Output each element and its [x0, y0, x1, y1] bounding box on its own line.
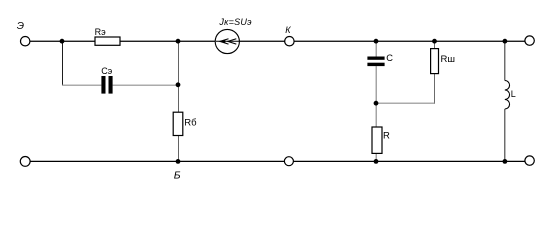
wire grey: node Э down-leg (62,41)-(62,85)	[62, 41, 64, 85]
node dot: top at x=505	[503, 39, 508, 44]
wire grey: Rш bottom lead down (434.5,73.5)-(434.5,103)	[434, 74, 436, 104]
wire grey: R top lead (376,103)-(376,127)	[375, 103, 377, 127]
label Rэ	[95, 27, 106, 37]
svg-text:C: C	[386, 53, 393, 63]
svg-text:Rэ: Rэ	[95, 27, 106, 37]
terminal Э (top-left)	[21, 37, 30, 46]
wire grey: Rш top lead (434.5,41)-(434.5,48.5)	[434, 41, 436, 48]
label Э	[17, 20, 24, 32]
wire grey: vertical node Б leg (178,41)-(178,112)	[178, 41, 180, 112]
node dot: top at x=178	[176, 39, 181, 44]
svg-text:Rб: Rб	[184, 117, 197, 128]
label Rб	[184, 117, 197, 128]
svg-text:L: L	[511, 89, 516, 99]
resistor R	[372, 127, 382, 153]
node dot: Б junction (178,161.4)	[176, 159, 181, 164]
label Jк=SUэ	[218, 17, 252, 27]
terminal right-bottom	[525, 156, 534, 165]
inductor L	[505, 81, 510, 110]
node dot: bottom at x=505	[503, 159, 508, 164]
wire grey: C top lead (376,41)-(376,56.5)	[375, 41, 377, 56]
resistor Rэ	[95, 37, 120, 45]
node dot: Cэ-Rб junction (178,85)	[176, 82, 181, 87]
svg-text:К: К	[285, 25, 291, 35]
svg-text:Jк=SUэ: Jк=SUэ	[218, 17, 252, 27]
wire bottom main (terminal to right)	[30, 160, 525, 162]
wire top main (terminal Э to terminal К to right terminal)	[30, 40, 525, 42]
label Б	[174, 169, 181, 181]
node dot: Э junction (62,41)	[60, 39, 65, 44]
terminal bottom-left	[20, 157, 30, 167]
svg-text:Cэ: Cэ	[101, 66, 112, 76]
label L	[511, 89, 516, 99]
node dot: bottom at x=376	[374, 159, 379, 164]
svg-text:Э: Э	[17, 20, 24, 32]
label R	[383, 130, 390, 141]
wire grey: C bottom lead to node (376,66)-(376,103)	[375, 66, 377, 103]
node dot: C-R-Rш junction (376,103)	[374, 101, 379, 106]
terminal bottom-middle	[284, 157, 293, 166]
label К	[285, 25, 291, 35]
svg-text:Rш: Rш	[441, 54, 455, 65]
label Cэ	[101, 66, 112, 76]
wire grey: R bottom lead (376,153.4)-(376,161.4)	[375, 153, 377, 161]
capacitor Cэ	[101, 76, 112, 94]
capacitor C	[367, 57, 384, 67]
wire grey: Cэ branch right (112.6,85)-(178,85)	[113, 84, 179, 86]
wire grey: Rб bottom lead (178,135.5)-(178,161.4)	[178, 136, 180, 162]
resistor Rш	[431, 49, 439, 74]
terminal right-top	[525, 36, 534, 45]
resistor Rб	[173, 112, 183, 135]
terminal К	[285, 37, 294, 46]
node dot: top at x=434.5	[432, 39, 437, 44]
wire black: L branch bottom (505,109)-(505,161.4)	[504, 109, 506, 161]
node dot: top at x=376	[374, 39, 379, 44]
svg-text:Б: Б	[174, 169, 181, 181]
wire black: L branch top (505,41)-(505,80.5)	[504, 41, 506, 80]
svg-text:R: R	[383, 130, 390, 141]
current source Jк (circle with double arrow)	[215, 29, 239, 53]
label C	[386, 53, 393, 63]
wire grey: Cэ branch left (62,85)-(101.4,85)	[62, 84, 101, 86]
wire grey: Rш connector to node (434.5,103)-(376,103)	[376, 102, 435, 104]
label Rш	[441, 54, 455, 65]
